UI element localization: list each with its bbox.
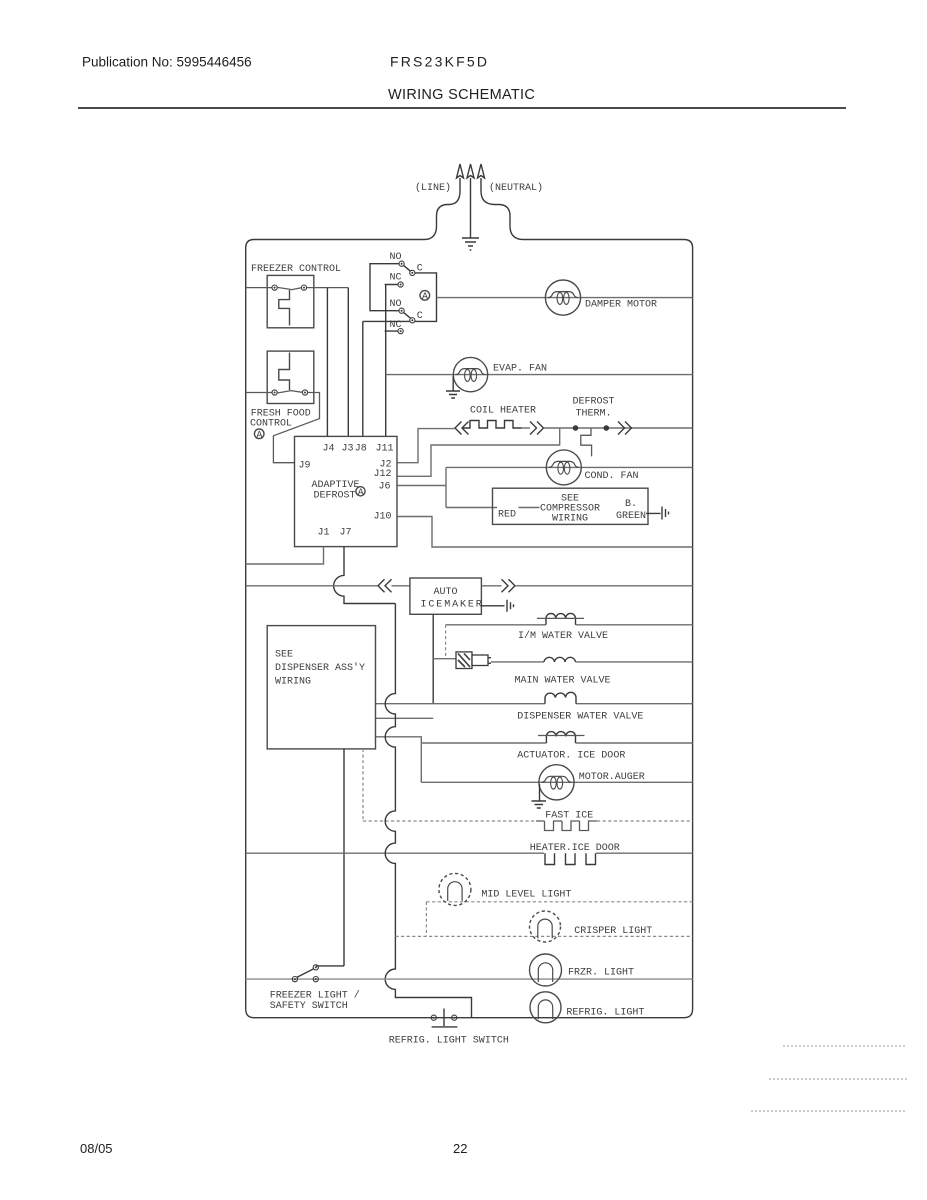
svg-text:B.: B.	[625, 499, 637, 510]
wire freezer control to J4 J3	[307, 287, 349, 289]
relay blade 1	[404, 265, 411, 271]
inline connector left half	[456, 652, 472, 669]
wire freezer light vertical from dispenser box	[343, 749, 345, 966]
relay NC2 contact	[398, 329, 403, 334]
wire NC link vertical to J11	[385, 285, 387, 437]
svg-text:22: 22	[453, 1141, 467, 1156]
wire defrost therm line	[522, 427, 531, 429]
wire J7 down with hop	[334, 547, 396, 604]
circle A marker adaptive defrost	[356, 487, 365, 496]
svg-text:(LINE): (LINE)	[415, 182, 451, 194]
svg-text:WIRING SCHEMATIC: WIRING SCHEMATIC	[388, 87, 535, 103]
svg-text:J9: J9	[299, 461, 311, 472]
outer border with power entry bump	[246, 178, 693, 1018]
wire icemaker feed line	[246, 585, 378, 587]
svg-text:COND. FAN: COND. FAN	[585, 471, 639, 482]
freezer control box	[267, 275, 314, 327]
ground symbol at power entry	[462, 238, 479, 250]
svg-text:DEFROST: DEFROST	[314, 491, 356, 502]
heater ice door teeth	[545, 853, 596, 864]
svg-text:Publication No: 5995446456: Publication No: 5995446456	[82, 55, 252, 70]
fresh food left terminal	[272, 390, 277, 395]
svg-text:J1: J1	[318, 528, 330, 539]
compressor ground connector	[646, 507, 669, 520]
wire freezer light safety line	[246, 978, 693, 980]
chevron left coil heater	[455, 422, 469, 435]
mid level light lamp	[439, 873, 471, 905]
svg-text:WIRING: WIRING	[275, 677, 311, 688]
svg-text:CONTROL: CONTROL	[250, 419, 292, 430]
refrig light switch right contact	[452, 1015, 457, 1020]
wire J10 line	[397, 517, 693, 548]
cond fan motor	[546, 450, 581, 485]
freezer control right terminal	[301, 285, 306, 290]
motor auger ground	[532, 784, 547, 808]
line prong arrow	[457, 164, 464, 178]
svg-text:MOTOR.AUGER: MOTOR.AUGER	[579, 772, 645, 783]
relay NO1 contact	[399, 261, 404, 266]
circle A marker fresh food	[254, 429, 264, 439]
wire J8 vertical	[362, 321, 364, 436]
svg-text:FRS23KF5D: FRS23KF5D	[390, 54, 489, 70]
svg-text:CRISPER LIGHT: CRISPER LIGHT	[574, 926, 652, 937]
relay output box C1 to C2	[415, 273, 437, 322]
dashed fast ice line right	[597, 820, 693, 822]
relay NO2 contact	[399, 308, 404, 313]
svg-text:SEE: SEE	[275, 650, 293, 661]
dashed fast ice vertical	[362, 749, 364, 821]
wire icemaker output	[481, 585, 501, 587]
footer dotted lines	[783, 1045, 907, 1047]
svg-text:(NEUTRAL): (NEUTRAL)	[489, 182, 543, 194]
svg-text:A: A	[422, 292, 428, 303]
svg-text:REFRIG. LIGHT: REFRIG. LIGHT	[566, 1008, 644, 1019]
coil heater element	[462, 421, 522, 429]
IM valve coil strike line	[537, 617, 584, 619]
svg-text:FAST ICE: FAST ICE	[545, 811, 593, 822]
svg-text:MID LEVEL LIGHT: MID LEVEL LIGHT	[481, 890, 571, 901]
svg-text:J11: J11	[376, 443, 394, 454]
freezer control blade	[277, 287, 301, 289]
svg-text:I/M WATER VALVE: I/M WATER VALVE	[518, 630, 608, 642]
svg-text:SAFETY SWITCH: SAFETY SWITCH	[270, 1001, 348, 1012]
wire evap fan line	[386, 374, 693, 376]
wire J4 vertical	[326, 288, 328, 437]
svg-text:FREEZER LIGHT /: FREEZER LIGHT /	[270, 990, 360, 1002]
svg-text:RED: RED	[498, 510, 516, 521]
see dispenser assy wiring box	[267, 626, 375, 749]
fresh food blade	[277, 391, 302, 393]
crisper light line	[395, 935, 692, 937]
dashed drop IM line to connector line	[445, 625, 447, 659]
svg-text:J6: J6	[379, 482, 391, 493]
svg-text:EVAP. FAN: EVAP. FAN	[493, 364, 547, 375]
relay NC link	[385, 285, 398, 332]
safety switch right contact	[313, 977, 318, 982]
svg-text:WIRING: WIRING	[552, 514, 588, 525]
svg-text:ACTUATOR. ICE DOOR: ACTUATOR. ICE DOOR	[517, 751, 625, 762]
compressor wiring box	[493, 488, 649, 524]
svg-text:J3: J3	[342, 443, 354, 454]
svg-text:DAMPER MOTOR: DAMPER MOTOR	[585, 300, 657, 311]
refrig light switch plunger	[432, 1009, 458, 1027]
svg-text:THERM.: THERM.	[576, 409, 612, 420]
refrig light switch left contact	[431, 1015, 436, 1020]
freezer control thermostat zigzag	[279, 290, 290, 326]
wire relay to damper motor	[437, 297, 693, 299]
dispenser valve coil	[545, 692, 576, 703]
wire icemaker output to right border	[515, 585, 693, 587]
actuator coil	[546, 732, 575, 743]
actuator coil strike line	[538, 735, 585, 737]
svg-text:REFRIG. LIGHT SWITCH: REFRIG. LIGHT SWITCH	[389, 1036, 509, 1047]
dashed fast ice line left	[363, 820, 536, 822]
svg-text:GREEN: GREEN	[616, 511, 646, 522]
svg-text:COIL HEATER: COIL HEATER	[470, 406, 536, 417]
svg-text:DISPENSER ASS'Y: DISPENSER ASS'Y	[275, 662, 365, 674]
wire chevron to icemaker box	[392, 585, 410, 587]
icemaker plug connector	[481, 600, 513, 612]
wire fresh food to J9	[273, 393, 319, 463]
svg-text:FRZR. LIGHT: FRZR. LIGHT	[568, 968, 634, 979]
svg-text:DISPENSER WATER VALVE: DISPENSER WATER VALVE	[517, 712, 643, 723]
safety switch left contact	[292, 977, 297, 982]
safety switch blade	[297, 969, 315, 978]
wire J12 riser to therm line	[397, 428, 560, 476]
motor auger	[539, 765, 574, 800]
chevron right icemaker output	[502, 579, 516, 592]
fast ice heater teeth	[536, 821, 597, 831]
svg-text:J10: J10	[374, 512, 392, 523]
svg-text:08/05: 08/05	[80, 1141, 113, 1156]
junction dot right on therm line	[604, 425, 610, 431]
relay blade 2	[404, 312, 411, 318]
relay C2 contact	[410, 318, 415, 323]
IM valve coil	[546, 613, 576, 624]
wire middle stub line	[376, 717, 434, 719]
junction dot left on therm line	[573, 425, 579, 431]
svg-text:C: C	[417, 311, 423, 322]
svg-text:ICEMAKER: ICEMAKER	[421, 600, 484, 611]
wire dispenser valve line	[376, 703, 693, 705]
mid level light line	[426, 901, 692, 903]
fresh food feed wire	[246, 392, 272, 394]
svg-text:J7: J7	[340, 528, 352, 539]
chevron right end of therm line	[618, 422, 632, 435]
wire actuator line	[421, 742, 692, 744]
neutral prong arrow	[478, 164, 485, 178]
fresh food control box	[267, 351, 314, 403]
svg-text:J4: J4	[323, 443, 335, 454]
freezer control left terminal	[272, 285, 277, 290]
mid level light dashed feed	[425, 902, 427, 937]
svg-text:J12: J12	[374, 469, 392, 480]
frzr light lamp	[530, 954, 562, 986]
wire J1 to left border	[246, 547, 324, 564]
wire actuator feed	[376, 737, 422, 783]
svg-text:AUTO: AUTO	[434, 587, 458, 598]
safety switch upper contact	[313, 965, 318, 970]
inline connector right half	[472, 655, 488, 666]
crisper light lamp	[530, 911, 561, 942]
relay NC1 contact	[398, 282, 403, 287]
adaptive defrost box	[295, 436, 398, 546]
ground prong arrow	[467, 164, 474, 178]
wire C2 to J8	[363, 320, 410, 322]
svg-text:DEFROST: DEFROST	[573, 397, 615, 408]
svg-text:A: A	[256, 430, 262, 441]
fresh food right terminal	[302, 390, 307, 395]
wire cond fan line	[446, 466, 693, 468]
wire IM valve line	[446, 624, 693, 626]
relay NO bracket	[370, 264, 399, 311]
wire J2 riser to coil heater	[397, 429, 455, 463]
safety switch feed	[316, 965, 344, 967]
auto icemaker box	[410, 578, 482, 614]
svg-text:FREEZER CONTROL: FREEZER CONTROL	[251, 264, 341, 275]
refrig light lamp	[530, 992, 561, 1023]
defrost thermostat hook	[581, 428, 592, 456]
wire icemaker down to dispenser line	[432, 614, 434, 703]
evap fan ground	[446, 376, 460, 398]
wire motor auger line	[421, 781, 692, 783]
damper motor	[545, 280, 580, 315]
main valve coil	[544, 657, 576, 662]
relay C1 contact	[410, 270, 415, 275]
fresh food thermostat zigzag	[279, 353, 290, 391]
svg-text:J8: J8	[355, 443, 367, 454]
ground wire from plug	[470, 178, 472, 238]
svg-text:HEATER.ICE DOOR: HEATER.ICE DOOR	[530, 843, 620, 854]
wire connector feed	[433, 658, 456, 660]
wire heater ice door line	[246, 852, 693, 854]
wire J3 vertical	[347, 288, 349, 437]
svg-text:MAIN WATER VALVE: MAIN WATER VALVE	[515, 676, 611, 687]
evap fan motor	[453, 357, 487, 391]
chevron right after coil heater	[530, 422, 544, 435]
svg-text:ADAPTIVE: ADAPTIVE	[312, 480, 360, 491]
long vertical with hops	[385, 604, 471, 1018]
wire J6 to cond fan riser	[397, 467, 540, 507]
freezer control feed wire	[246, 287, 272, 289]
wire main valve line	[491, 661, 693, 663]
header rule	[78, 107, 846, 109]
circle A marker relay	[420, 291, 430, 301]
chevron left auto icemaker	[378, 579, 392, 592]
svg-text:A: A	[358, 488, 364, 499]
